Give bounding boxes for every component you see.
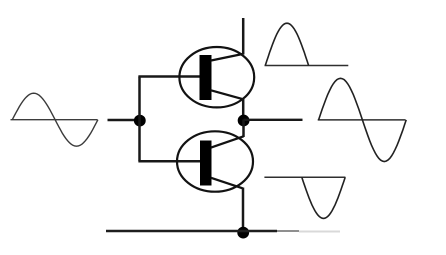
waveform: Q2 output negative half-cycle [302, 177, 345, 218]
wire: bottom rail faded segment [277, 230, 299, 232]
transistor Q1 collector lead [211, 54, 244, 61]
transistor Q2 body circle [177, 131, 253, 191]
transistor Q1 body circle [179, 47, 254, 107]
input sine waveform baseline [11, 119, 98, 121]
waveform: Q1 output baseline [265, 65, 349, 67]
input sine waveform [12, 93, 98, 146]
waveform: Q1 output positive half-cycle [265, 23, 308, 65]
wire: output node to Q2 collector [242, 120, 245, 138]
wire: Q1 emitter to output node [242, 99, 245, 122]
waveform: combined output baseline [318, 119, 406, 121]
transistor Q2 collector lead [211, 136, 244, 147]
transistor Q1 base bar [200, 55, 212, 100]
wire: Q2 emitter down to rail [242, 188, 245, 233]
transistor Q2 emitter lead [211, 178, 243, 189]
transistor Q2 base bar [200, 141, 212, 186]
wire: base of Q2 [138, 160, 200, 163]
node: bottom rail junction dot [237, 227, 249, 239]
wire: base of Q1 [138, 75, 200, 78]
wire: bottom rail [106, 230, 277, 233]
wire: Q1 collector up to supply [242, 18, 245, 55]
wire: vertical base bus [138, 77, 141, 162]
waveform: combined output full sine [319, 78, 407, 161]
transistor Q1 emitter lead [211, 90, 244, 99]
node: input junction dot [134, 115, 146, 127]
waveform: Q2 output baseline [264, 176, 345, 178]
wire: output to load [244, 119, 303, 121]
node: output junction dot [238, 115, 250, 127]
wire: input to base node [108, 119, 141, 122]
